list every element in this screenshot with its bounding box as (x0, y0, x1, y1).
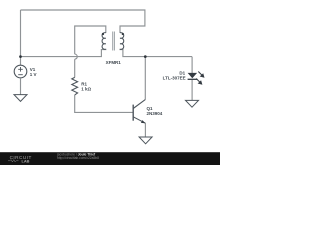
Q1 emitter diagonal (133, 117, 145, 123)
junction node at Q1 collector / rail (144, 55, 147, 58)
transformer phase dot right (122, 33, 124, 35)
transformer XFMR1 right winding (120, 33, 124, 50)
wire D1 anode from rail (191, 57, 193, 74)
wire hop bottom to R1 top (74, 59, 76, 77)
ground under D1 (186, 100, 199, 107)
wire mid rail from V1 junction to transformer left bottom (21, 49, 106, 57)
wire top rail from V1 up over to transformer right top (21, 10, 145, 33)
wire V1 bottom lead (20, 78, 22, 95)
wire left vertical V1 to top rail (20, 10, 22, 65)
CircuitLab logo wordmark (8, 152, 99, 163)
transformer phase dot left (102, 33, 104, 35)
svg-text:1 V: 1 V (30, 72, 37, 77)
transistor Q1 base bar (132, 105, 134, 121)
footer black bar (0, 152, 220, 165)
Q1 emitter arrowhead (141, 120, 146, 123)
LED light arrow 2 (196, 79, 200, 83)
svg-text:http;//circuitlab.com/c22a5b8: http;//circuitlab.com/c22a5b8 (57, 156, 99, 160)
wire R1 bottom to Q1 base (75, 95, 133, 112)
transformer XFMR1 left winding (102, 33, 106, 50)
ground under Q1 emitter (139, 137, 152, 144)
Q1 collector diagonal (133, 100, 145, 109)
wire D1 cathode to ground (191, 80, 193, 101)
ground under V1 (14, 95, 27, 102)
resistor R1 zigzag (72, 77, 78, 95)
junction node at V1 top (19, 55, 22, 58)
svg-text:LAB: LAB (22, 159, 30, 164)
LED light arrow 1 (198, 72, 202, 76)
wire Q1 emitter down to ground (144, 123, 146, 137)
wire transformer right bottom to rail right (120, 49, 192, 57)
svg-text:2N3904: 2N3904 (147, 111, 163, 116)
voltage source V1 circle (14, 65, 27, 78)
V1 minus sign (18, 74, 23, 76)
transformer core lines (113, 32, 115, 51)
svg-text:1 kΩ: 1 kΩ (81, 86, 91, 91)
wire hop over mid rail (no connection) (75, 54, 78, 59)
label V1 value (30, 60, 186, 116)
wire Q1 collector up to rail (144, 57, 146, 100)
V1 plus sign (18, 67, 23, 72)
LED D1 triangle (188, 73, 198, 78)
wire transformer left top to R1 (upper part) (75, 26, 106, 54)
LED D1 cathode bar (188, 78, 198, 80)
svg-text:LTL-307EE: LTL-307EE (163, 75, 186, 80)
svg-text:XFMR1: XFMR1 (106, 60, 122, 65)
